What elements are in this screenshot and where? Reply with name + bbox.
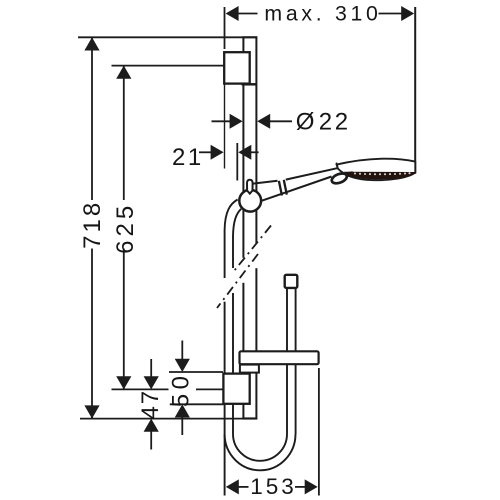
dim 625 bottom ref line — [112, 388, 169, 390]
dim dia22 arrow left-pointing — [257, 114, 270, 129]
wall bar top edge — [242, 36, 257, 38]
slider pin — [247, 180, 253, 194]
svg-text:47: 47 — [137, 389, 164, 420]
hose outer right line — [295, 289, 297, 435]
dim max310 ext line left — [224, 7, 226, 49]
svg-text:max. 310: max. 310 — [264, 2, 381, 26]
break line lower dash-dot — [217, 254, 258, 308]
slider circle — [239, 190, 261, 212]
dim 625 arrow down — [116, 376, 131, 389]
dim max310 ext line right — [414, 7, 416, 174]
dim 21 ext line right — [236, 143, 238, 181]
handshower handle upper line — [253, 168, 337, 183]
dim dia22 arrow right-pointing — [230, 114, 243, 129]
wall bar right line — [255, 37, 257, 418]
hose nut — [285, 275, 298, 288]
hose inner right line — [286, 289, 288, 435]
dim 47 upper line — [150, 359, 152, 378]
dim 47 lower line — [150, 431, 152, 450]
handshower handle lower line — [260, 177, 332, 202]
dim 50 lower line — [181, 417, 183, 436]
dim max310 arrow left — [226, 6, 239, 21]
dim 21 arrow left-pointing — [238, 145, 251, 160]
wall bracket top — [224, 52, 250, 83]
dim max310 line — [236, 13, 258, 15]
dim 718 top ref line — [78, 36, 243, 38]
svg-text:718: 718 — [79, 200, 106, 249]
dim 21 line — [199, 151, 212, 153]
break band eraser — [223, 278, 227, 302]
soap dish — [240, 351, 319, 364]
dim 21 right line — [250, 151, 258, 153]
svg-text:22: 22 — [319, 109, 351, 136]
dim 718 arrow up — [84, 37, 99, 50]
dim dia22 right line — [269, 120, 292, 122]
svg-text:153: 153 — [250, 474, 297, 499]
handle collar — [279, 180, 287, 196]
dim 50 bottom ref line — [170, 403, 224, 405]
svg-text:21: 21 — [172, 144, 204, 171]
svg-text:50: 50 — [168, 372, 195, 408]
dim 153 line left — [238, 486, 249, 488]
shower head spray face dark band — [344, 172, 415, 180]
dim 21 ext line at wall — [224, 85, 226, 169]
dim 625 line — [123, 66, 125, 200]
dim 50 arrow down — [175, 359, 190, 372]
dim 625 arrow up — [116, 66, 131, 79]
dim 153 arrow left-pointing — [226, 479, 239, 494]
dim dia22 left line — [212, 120, 231, 122]
head left notch — [336, 163, 337, 167]
wall bar bottom edge — [242, 417, 257, 419]
dim 50 arrow up — [175, 404, 190, 417]
dim 718 line — [91, 37, 93, 200]
dim 50 upper line — [181, 341, 183, 361]
bracket seam on bar — [242, 83, 257, 86]
dim 47 arrow down — [144, 376, 159, 389]
dim 153 arrow right-pointing — [305, 479, 318, 494]
dim 718 arrow down — [84, 405, 99, 418]
wall bar left line — [242, 37, 244, 418]
soap dish step — [240, 365, 259, 373]
svg-text:625: 625 — [112, 202, 139, 254]
dim 153 right ext line — [318, 368, 320, 496]
head ball joint — [330, 172, 348, 186]
dim 718 bottom ref line — [80, 418, 257, 420]
dim 153 line right — [295, 486, 306, 488]
dim 47 arrow up — [144, 419, 159, 432]
spray nozzle dots — [349, 172, 411, 175]
wall bracket bottom — [223, 374, 249, 404]
hose outer left line — [225, 200, 238, 496]
ball to face dark wedge — [345, 171, 353, 177]
svg-text:Ø: Ø — [296, 109, 315, 136]
shower head body — [337, 159, 416, 181]
dim 21 arrow right-pointing — [211, 145, 224, 160]
dim max310 arrow right — [401, 6, 414, 21]
dim 625 top ref line — [112, 65, 225, 67]
dim 50 top ref line — [169, 371, 223, 373]
hose inner left line — [233, 209, 241, 434]
hose U inner curve — [233, 434, 287, 461]
break line upper dash-dot — [234, 226, 271, 272]
hose U outer curve — [225, 434, 296, 470]
